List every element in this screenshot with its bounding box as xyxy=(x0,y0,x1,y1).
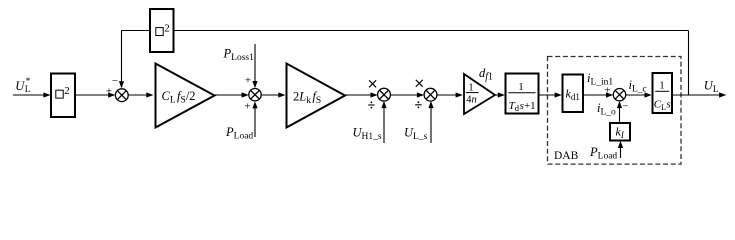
summing junction S2 xyxy=(249,89,261,101)
svg-text:−: − xyxy=(622,100,628,112)
multiplier junction M2 xyxy=(424,88,437,101)
svg-text:Tds+1: Tds+1 xyxy=(509,100,536,113)
wire: M1 to multiplier M2 xyxy=(390,92,424,97)
label × at M1 xyxy=(369,80,376,87)
svg-text:2: 2 xyxy=(164,22,170,34)
wire: P_Loss1 into S2 top xyxy=(252,44,257,88)
svg-text:−: − xyxy=(112,75,118,87)
block k_I xyxy=(610,123,630,141)
wire: T2 to multiplier M1 xyxy=(345,92,378,97)
svg-text:+: + xyxy=(604,84,610,96)
label ÷ at M1 xyxy=(368,102,374,109)
svg-text:DAB: DAB xyxy=(554,150,579,162)
wire: input to squarer block B1 xyxy=(13,92,51,97)
wire: k_d1 to summing junction S3 xyxy=(583,92,613,97)
wire: output U_L xyxy=(672,92,726,97)
block B0 squarer (feedback) xyxy=(150,9,174,52)
DAB dashed box xyxy=(548,57,682,165)
wire: T1 to summing junction S2 xyxy=(215,92,249,97)
wire: P_Load into k_I bottom xyxy=(618,141,623,158)
multiplier junction M1 xyxy=(378,88,391,101)
label × at M2 xyxy=(416,80,423,87)
wire: S3 to integrator block xyxy=(626,92,652,97)
wire: M2 to gain triangle T3 xyxy=(437,92,463,97)
wire: feedback top run to squarer B0 xyxy=(173,30,689,32)
svg-text:U: U xyxy=(15,79,25,93)
svg-text:1: 1 xyxy=(468,83,473,94)
wire: P_Load into S2 bottom xyxy=(252,101,257,137)
gain triangle T1 (C_L f_S /2) xyxy=(156,64,215,128)
svg-text:L: L xyxy=(25,85,31,95)
block k_d1 xyxy=(563,75,584,113)
summing junction S3 xyxy=(613,89,625,101)
wire: S1 to gain triangle T1 xyxy=(128,92,153,97)
label ÷ at M2 xyxy=(415,101,421,108)
svg-text:2: 2 xyxy=(64,85,70,97)
svg-text:+: + xyxy=(245,74,251,86)
wire: squarer B0 to S1 feedback corner xyxy=(122,30,151,32)
wire: feedback down into S1 top xyxy=(119,31,124,89)
label U_L* (input reference) xyxy=(15,77,31,95)
gain triangle T3 (1/4n) xyxy=(464,74,495,114)
gain triangle T2 (2 L_k f_S) xyxy=(287,64,346,128)
block 1/(T_d s+1) xyxy=(506,74,539,114)
wire: S2 to gain triangle T2 xyxy=(261,92,285,97)
wire: U_L_s into M2 bottom xyxy=(428,101,433,143)
wire: T3 to delay block xyxy=(495,92,505,97)
wire: k_I output into S3 bottom xyxy=(617,101,622,123)
svg-text:+: + xyxy=(244,101,250,113)
wire: feedback tap up from output xyxy=(688,31,690,96)
summing junction S1 xyxy=(115,89,128,102)
wire: B1 to summing junction S1 xyxy=(75,92,115,97)
svg-text:1: 1 xyxy=(518,81,524,93)
wire: delay block to k_d1 xyxy=(539,92,562,97)
block B1 squarer (square-then-2) xyxy=(51,74,75,118)
wire: U_H1_s into M1 bottom xyxy=(381,101,386,143)
svg-text:4n: 4n xyxy=(466,95,477,106)
block 1/(C_L s) xyxy=(653,73,673,113)
svg-text:1: 1 xyxy=(659,80,665,92)
